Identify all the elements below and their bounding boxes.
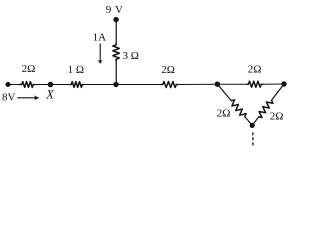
node: 9V terminal dot [113, 17, 118, 22]
dashed continuation below bottom vertex [252, 132, 254, 145]
node: left input terminal dot [6, 82, 11, 87]
node: triangle left dot [215, 82, 220, 87]
wire: node X to resistor 1ohm [51, 84, 71, 86]
resistor 1ohm [70, 82, 84, 88]
wire: R1 to node X [35, 84, 51, 86]
wire: top 2ohm to triangle right node [263, 83, 284, 85]
wire: 1ohm to center junction [84, 84, 117, 86]
resistor 2ohm (middle) [161, 82, 178, 88]
node: center junction dot [113, 82, 118, 87]
svg-text:2Ω: 2Ω [22, 63, 36, 75]
svg-text:2Ω: 2Ω [248, 63, 262, 75]
wire: left terminal to resistor R1 [8, 84, 20, 86]
svg-text:1 Ω: 1 Ω [68, 64, 84, 76]
resistor 2ohm (triangle left diagonal) [217, 84, 231, 100]
resistor 2ohm (triangle top) [247, 81, 263, 87]
svg-text:9 V: 9 V [106, 4, 124, 16]
node: triangle bottom vertex dot [250, 123, 255, 128]
svg-text:2Ω: 2Ω [217, 108, 231, 120]
svg-text:2Ω: 2Ω [270, 111, 284, 123]
wire: 3ohm down to center junction [115, 61, 117, 85]
svg-text:8V: 8V [2, 92, 16, 104]
resistor 2ohm (triangle right diagonal) [272, 84, 284, 100]
node: triangle right dot [281, 81, 286, 86]
svg-text:X: X [45, 88, 54, 102]
resistor 2ohm (left) [20, 82, 35, 88]
svg-text:3 Ω: 3 Ω [123, 50, 139, 62]
wire: middle 2ohm to triangle left node [178, 83, 217, 85]
node X dot [48, 82, 54, 88]
arrow: 1A current direction [100, 44, 101, 62]
wire: center junction to resistor 2ohm middle [116, 84, 161, 86]
wire: 9V terminal down to resistor 3ohm [115, 20, 117, 43]
svg-text:1A: 1A [93, 32, 107, 44]
svg-text:2Ω: 2Ω [161, 64, 175, 76]
arrow: 8V input direction [17, 97, 35, 98]
resistor 3ohm (vertical) [113, 43, 119, 61]
wire: triangle left node to top 2ohm resistor [217, 83, 247, 85]
